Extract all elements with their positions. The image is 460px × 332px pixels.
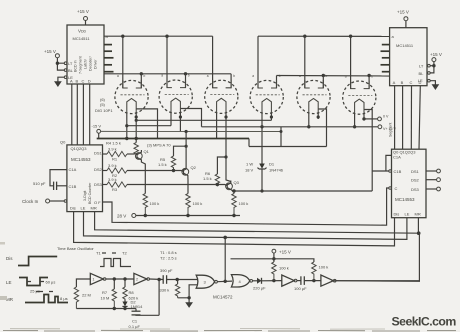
- svg-text:MC14511: MC14511: [73, 36, 91, 41]
- svg-text:T1 : 0.8 s: T1 : 0.8 s: [160, 250, 177, 255]
- svg-text:2: 2: [136, 278, 138, 282]
- wire V5 left lead: [308, 113, 310, 127]
- wire V3 right lead (digit 3 line): [226, 113, 231, 182]
- counter IC U3 MC14553 (left): [67, 145, 103, 212]
- resistor R5 1.5k vertical: [174, 146, 187, 156]
- svg-text:R3: R3: [112, 187, 118, 192]
- U4 clock pin bubble: [389, 187, 392, 190]
- svg-text:DIG 10P1: DIG 10P1: [95, 108, 113, 113]
- svg-text:8 μs: 8 μs: [60, 296, 68, 301]
- ground symbol below U1: [55, 82, 62, 87]
- U2 LE pin bubble: [428, 79, 431, 82]
- wire U2.C to U4.Q2: [410, 86, 412, 150]
- svg-text:R1: R1: [112, 157, 118, 162]
- svg-text:C1A: C1A: [393, 155, 401, 160]
- svg-text:LE: LE: [405, 212, 410, 217]
- svg-text:B: B: [76, 79, 79, 84]
- transistor Q3: [226, 183, 233, 190]
- svg-text:C: C: [410, 80, 413, 85]
- resistor 100k (timer b): [312, 262, 316, 281]
- svg-text:22 M: 22 M: [82, 293, 91, 298]
- svg-text:Q1Q2Q3: Q1Q2Q3: [71, 146, 88, 151]
- svg-text:b: b: [371, 75, 373, 79]
- wire +15V to U2 LT BL: [430, 62, 434, 73]
- svg-text:100 k: 100 k: [193, 201, 203, 206]
- wire bus-b drop to tube V6: [368, 76, 370, 89]
- svg-text:a: a: [161, 74, 163, 78]
- svg-text:C: C: [82, 79, 85, 84]
- svg-text:Driver: Driver: [94, 59, 98, 69]
- svg-text:+15 V: +15 V: [77, 9, 89, 14]
- U4 C1A loop stub: [386, 155, 392, 171]
- svg-text:Segment: Segment: [389, 123, 393, 137]
- U4 DS3 terminal: [426, 188, 437, 190]
- svg-text:3.9 k: 3.9 k: [108, 147, 117, 152]
- U1 LT pin bubble: [64, 62, 67, 65]
- svg-text:390 pF: 390 pF: [160, 268, 173, 273]
- svg-text:BL: BL: [68, 68, 74, 73]
- svg-text:R4 1.5 k: R4 1.5 k: [106, 141, 121, 146]
- svg-text:C1: C1: [132, 319, 138, 324]
- svg-text:R7: R7: [102, 290, 108, 295]
- svg-text:Latch/: Latch/: [84, 59, 88, 69]
- tube pin letters: [117, 74, 373, 79]
- svg-text:Clock In: Clock In: [22, 199, 39, 204]
- inverter gate 6: [321, 275, 334, 286]
- segment bus b (right): [277, 75, 390, 78]
- display tube V4: [250, 80, 283, 114]
- wire bus-a drop to tube V5: [304, 36, 306, 88]
- svg-text:25 μs: 25 μs: [30, 289, 40, 294]
- wire rail corner into lower link: [248, 139, 250, 147]
- U4 DS2 terminal: [426, 179, 437, 181]
- MR bus: [95, 212, 420, 234]
- wire digit2 bus V2-V5-V6 feed: [202, 126, 379, 128]
- svg-text:C1B: C1B: [69, 184, 77, 189]
- svg-text:MR: MR: [91, 206, 97, 211]
- wire U2.D to U4.Q3: [419, 86, 420, 150]
- svg-text:Q2: Q2: [191, 165, 197, 170]
- svg-text:T2: T2: [122, 251, 127, 256]
- svg-text:Dis: Dis: [394, 212, 400, 217]
- svg-text:Decoder/: Decoder/: [89, 56, 93, 71]
- wire U4 MR pin to bus: [417, 218, 419, 234]
- resistor 100k (digit2 pulldown): [186, 194, 190, 216]
- svg-text:O F: O F: [94, 200, 101, 205]
- NOR gate 4: [231, 275, 249, 287]
- svg-text:1: 1: [93, 278, 95, 282]
- wire MR bus down to timer output: [331, 233, 419, 281]
- svg-text:28 V: 28 V: [117, 214, 126, 219]
- svg-text:b: b: [233, 74, 235, 78]
- svg-text:b: b: [326, 74, 328, 78]
- svg-text:10 M: 10 M: [101, 296, 110, 301]
- wire feedback from C1 up: [158, 280, 160, 316]
- svg-text:MR: MR: [6, 297, 14, 302]
- wire 330k to ground node: [178, 298, 190, 303]
- resistor 100k (digit1 pulldown): [143, 194, 147, 216]
- segment bus b (left): [104, 73, 231, 75]
- svg-text:MC14553: MC14553: [71, 157, 91, 162]
- ground symbol right of U2: [432, 85, 439, 90]
- svg-text:MC14511: MC14511: [396, 43, 414, 48]
- wire feedback NOR3 to LE bus: [224, 237, 226, 281]
- svg-text:BCD Counter: BCD Counter: [88, 182, 92, 204]
- op IC U1 MC14511 (left decoder): [67, 25, 104, 84]
- svg-text:LE: LE: [6, 280, 12, 285]
- svg-text:SeekIC.com: SeekIC.com: [392, 315, 457, 329]
- U1 output stub pins b-f: [104, 44, 112, 46]
- resistor R1 3.9k on DS1: [103, 153, 108, 155]
- wire U1.B to U3.Q1: [76, 84, 78, 145]
- resistor 100k (digit3 pulldown): [232, 194, 236, 216]
- svg-text:A: A: [70, 79, 73, 84]
- ground symbol (oscillator): [186, 303, 193, 308]
- svg-text:Time Base Oscillator: Time Base Oscillator: [57, 246, 94, 251]
- inverter gate 5: [282, 275, 295, 286]
- svg-text:DS2: DS2: [411, 178, 420, 183]
- wire U1.D to U3.Q3: [89, 84, 91, 145]
- wire U3 OF to U4 clock: [103, 188, 389, 225]
- capacitor C1 0.1uF: [135, 309, 137, 312]
- wire V1 left lead: [126, 113, 128, 139]
- svg-text:+15 V: +15 V: [44, 49, 56, 54]
- svg-text:BL: BL: [419, 71, 425, 76]
- segment bus a (right): [258, 35, 390, 37]
- wire inv1 input: [76, 279, 90, 287]
- resistor R4 1.5k vertical: [134, 143, 138, 156]
- svg-text:(3) MPS A 70: (3) MPS A 70: [147, 143, 171, 148]
- svg-text:DS1: DS1: [94, 151, 103, 156]
- display tube V3: [205, 80, 238, 114]
- U3 clock pin bubble: [64, 200, 67, 203]
- svg-text:a: a: [299, 74, 301, 78]
- resistor 100k (timer a): [272, 262, 276, 281]
- svg-text:Q0: Q0: [60, 140, 66, 145]
- svg-text:C: C: [395, 186, 398, 191]
- svg-text:510 pF: 510 pF: [33, 181, 46, 186]
- svg-text:3.9 k: 3.9 k: [108, 177, 117, 182]
- resistor R8 620k vertical: [124, 279, 126, 287]
- svg-text:1 W: 1 W: [246, 162, 253, 167]
- svg-text:D: D: [419, 80, 422, 85]
- svg-text:100 μF: 100 μF: [294, 286, 307, 291]
- wire U2.B to U4.Q1: [402, 86, 404, 150]
- counter IC U4 MC14553 (right): [392, 149, 427, 218]
- wire +15V to LT and BL: [57, 58, 64, 64]
- wire bus-b drop to tube V2: [185, 74, 187, 88]
- svg-text:DS3: DS3: [411, 187, 420, 192]
- scan artifact left edge: [0, 296, 7, 300]
- wire U1.A to U3.Q0: [71, 84, 73, 145]
- svg-text:100 k: 100 k: [319, 265, 329, 270]
- resistor R7 10M vertical: [113, 279, 115, 289]
- wire U2 LE to ground: [430, 81, 435, 85]
- wire V4 left lead: [261, 113, 263, 164]
- resistor R3 3.9k on DS3: [103, 184, 108, 186]
- U2 BL pin bubble: [428, 72, 431, 75]
- +15V terminal (timer): [272, 249, 276, 253]
- transistor Q2: [182, 168, 189, 175]
- NOR gate 3 input2 wire: [189, 285, 197, 298]
- display tube V5: [297, 80, 330, 114]
- svg-text:b: b: [188, 74, 190, 78]
- resistor 22M vertical: [74, 287, 78, 309]
- wire long rail from -15V terminal: [101, 130, 281, 132]
- wire inv2 out: [150, 278, 164, 281]
- diode/cap 220uF after NOR4: [253, 280, 257, 282]
- wire U1.C to U3.Q2: [82, 84, 84, 145]
- zener D1 1N4746 (vertical): [259, 164, 265, 169]
- wire bus-a drop to tube V1: [122, 36, 124, 88]
- svg-text:LT: LT: [68, 61, 73, 66]
- wire V2 left lead: [170, 113, 172, 126]
- U2 LT pin bubble: [428, 64, 431, 67]
- wire V1 side tap: [137, 109, 158, 139]
- wire V3 left lead: [216, 113, 218, 139]
- wire digit1 link V1-V4: [136, 119, 271, 121]
- svg-text:Dis: Dis: [70, 206, 76, 211]
- svg-text:330 k: 330 k: [160, 288, 170, 293]
- oscillator bottom wire: [76, 308, 136, 310]
- U4 C1B pin bubble and wire: [389, 170, 392, 173]
- wire V2 side tap down to digit2 bus: [181, 109, 202, 127]
- +15V terminal left of U1: [55, 54, 59, 58]
- svg-text:a: a: [207, 74, 209, 78]
- wire bus-a drop to tube V3: [212, 36, 214, 88]
- svg-text:Dis: Dis: [6, 256, 13, 261]
- wire inv1 out to inv2 in: [106, 278, 134, 280]
- +15V rail to second 100k: [231, 259, 314, 262]
- +15V terminal above U2: [404, 17, 408, 21]
- U1 VDD pin wire: [85, 21, 87, 26]
- wire V5 right lead: [317, 113, 319, 119]
- display tube V2: [159, 80, 192, 114]
- svg-text:a: a: [117, 74, 119, 78]
- U4 DS1 terminal: [426, 170, 437, 172]
- svg-text:DS2: DS2: [94, 167, 103, 172]
- svg-text:Q3: Q3: [234, 180, 240, 185]
- transistor Q1: [135, 153, 142, 160]
- capacitor 390 pF: [162, 275, 164, 284]
- svg-text:MC14553: MC14553: [395, 197, 415, 202]
- svg-text:LE: LE: [81, 206, 86, 211]
- svg-text:DS1: DS1: [411, 169, 420, 174]
- svg-text:0 V: 0 V: [383, 115, 389, 119]
- segment bus a (left): [104, 35, 213, 37]
- wire bus-a drop to tube V4: [257, 36, 259, 88]
- svg-text:1N4746: 1N4746: [269, 168, 284, 173]
- +15V terminal above U1: [84, 17, 88, 21]
- capacitor 100uF: [297, 280, 301, 282]
- wire bus-b drop to tube V5: [322, 76, 324, 89]
- wire segment-rail drop at x=281: [280, 127, 282, 147]
- resistor R2 3.9k on DS2: [103, 170, 108, 172]
- display tube V6: [343, 81, 376, 115]
- svg-text:BCD In: BCD In: [74, 60, 78, 72]
- svg-text:C1B: C1B: [394, 169, 402, 174]
- svg-text:LT: LT: [419, 64, 424, 69]
- inverter gate 2: [134, 273, 147, 284]
- svg-text:-15 V: -15 V: [92, 124, 102, 129]
- svg-text:7-Segment: 7-Segment: [79, 56, 83, 74]
- svg-text:VDD: VDD: [78, 29, 87, 34]
- +15V terminal right of U2: [432, 58, 436, 62]
- wire NOR3 out: [217, 280, 232, 283]
- wire 0V link: [364, 118, 378, 120]
- svg-text:MC14572: MC14572: [213, 295, 233, 300]
- inverter gate 1: [90, 273, 103, 284]
- svg-text:+15 V: +15 V: [279, 250, 291, 255]
- wire anode link V1-V2: [127, 125, 171, 127]
- wire bus-b drop to tube V4: [276, 76, 278, 89]
- U1 BL pin bubble: [64, 69, 67, 72]
- svg-text:(5): (5): [100, 102, 106, 107]
- svg-text:MR: MR: [415, 212, 421, 217]
- svg-text:3-Digit: 3-Digit: [83, 191, 87, 201]
- svg-text:+15 V: +15 V: [430, 52, 442, 57]
- svg-text:220 μF: 220 μF: [253, 286, 266, 291]
- svg-text:+15 V: +15 V: [397, 10, 409, 15]
- svg-text:D: D: [88, 79, 91, 84]
- diode D2 1N914: [124, 300, 126, 302]
- Dis bus: [74, 212, 395, 246]
- svg-text:18 V: 18 V: [245, 168, 254, 173]
- wire filament return rail (dark): [97, 138, 249, 140]
- wire bus-b drop to tube V3: [230, 74, 232, 88]
- U2 input stub pins b-f: [382, 44, 390, 46]
- svg-text:b: b: [144, 74, 146, 78]
- svg-text:T2 : 2.5 s: T2 : 2.5 s: [160, 256, 177, 261]
- wire V4 right lead: [270, 113, 272, 120]
- capacitor 510 pF on U3 C1A/C1B: [50, 170, 67, 186]
- terminal -15 V (filament rail): [97, 129, 101, 133]
- svg-text:100 k: 100 k: [239, 201, 249, 206]
- svg-text:60 μs: 60 μs: [46, 280, 56, 285]
- svg-text:D1: D1: [269, 162, 275, 167]
- wire V1 right lead (digit 1 line): [135, 113, 137, 143]
- svg-text:A: A: [393, 80, 396, 85]
- digit3 collector line: [232, 190, 372, 192]
- wire V6 side tap down to digit3 feed: [364, 110, 372, 192]
- wire V5 lower link: [249, 146, 327, 148]
- op IC U2 MC14511 (right decoder): [390, 28, 427, 86]
- wire V2 right lead: [179, 113, 181, 132]
- svg-text:B: B: [401, 80, 404, 85]
- svg-text:R8: R8: [129, 290, 135, 295]
- wire bus-a drop to tube V6: [350, 36, 352, 88]
- wire V6 left lead: [354, 114, 356, 127]
- LE bus: [84, 212, 407, 240]
- svg-text:1.5 k: 1.5 k: [203, 176, 212, 181]
- scan artifact strip at bottom: [3, 329, 456, 332]
- resistor R6 1.5k vertical: [217, 157, 226, 174]
- wire U1 LE to ground: [58, 77, 64, 81]
- svg-text:Q1: Q1: [144, 149, 150, 154]
- resistor 330k vertical: [177, 280, 179, 285]
- wire bus-b drop to tube V1: [140, 74, 142, 88]
- svg-text:3.9 k: 3.9 k: [108, 163, 117, 168]
- svg-text:C1A: C1A: [69, 167, 77, 172]
- svg-text:b: b: [279, 74, 281, 78]
- U1 LE pin bubble: [64, 76, 67, 79]
- svg-text:a: a: [252, 74, 254, 78]
- terminal 0 V: [378, 117, 382, 121]
- NOR gate 3: [196, 275, 214, 288]
- svg-text:1.5 k: 1.5 k: [158, 162, 167, 167]
- svg-text:T1: T1: [96, 251, 101, 256]
- svg-text:a: a: [345, 75, 347, 79]
- wire V6 right lead: [363, 114, 365, 119]
- svg-text:DS3: DS3: [94, 182, 103, 187]
- svg-text:0.1 μF: 0.1 μF: [129, 324, 141, 329]
- wire U2.A to U4.Q0: [394, 86, 396, 150]
- svg-text:100 k: 100 k: [279, 266, 289, 271]
- svg-text:100 k: 100 k: [150, 201, 160, 206]
- wire V5 side tap: [319, 109, 327, 147]
- wire bus-a drop to tube V2: [166, 36, 168, 87]
- terminal V+ 15 V (segment supply): [378, 125, 382, 129]
- display tube V1: [115, 80, 148, 114]
- U2 VDD pin wire: [405, 21, 407, 28]
